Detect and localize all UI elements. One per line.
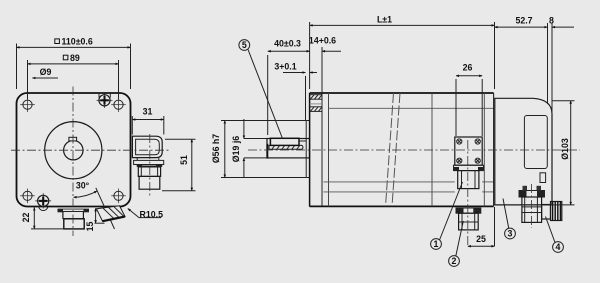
dim 25 bbox=[468, 207, 495, 246]
svg-text:3: 3 bbox=[508, 228, 513, 238]
motor body bbox=[310, 93, 494, 206]
dim Ø19 bbox=[231, 119, 267, 178]
centerline side horizontal bbox=[248, 149, 580, 151]
rear signal connector bbox=[519, 186, 562, 223]
screw bottom-left bbox=[35, 193, 51, 211]
svg-text:L±1: L±1 bbox=[377, 15, 392, 25]
svg-text:Ø9: Ø9 bbox=[40, 67, 52, 77]
svg-text:31: 31 bbox=[143, 107, 153, 117]
connector M12 bottom (front view) bbox=[58, 209, 90, 229]
shaft bbox=[266, 139, 309, 159]
dim Ø103 bbox=[520, 101, 575, 205]
centerline front horizontal bbox=[11, 149, 170, 151]
encoder housing bbox=[495, 98, 552, 205]
centerline rear connector bbox=[531, 184, 533, 228]
callout 4 bbox=[546, 217, 564, 253]
svg-text:3+0.1: 3+0.1 bbox=[274, 61, 296, 71]
dim Ø56 extension lines bbox=[221, 120, 306, 122]
dim 110 bbox=[17, 37, 131, 90]
dim 22 bbox=[21, 208, 64, 229]
shaft circle bbox=[64, 141, 83, 160]
keyway notch bbox=[69, 137, 77, 141]
centerline front vertical bbox=[72, 87, 74, 237]
dim 3 bbox=[274, 61, 317, 120]
flange outline bbox=[17, 93, 131, 207]
connector angled 30deg (front view) bbox=[96, 188, 125, 229]
dim 15 bbox=[85, 208, 105, 231]
svg-text:89: 89 bbox=[70, 53, 80, 63]
dim 26 bbox=[456, 63, 482, 137]
dim 51 bbox=[162, 139, 196, 191]
label R10.5 bbox=[128, 209, 163, 220]
dim 31 bbox=[132, 107, 164, 135]
svg-text:22: 22 bbox=[21, 213, 31, 223]
callout 2 bbox=[449, 221, 464, 266]
callout 3 bbox=[503, 199, 515, 239]
spigot bbox=[306, 121, 309, 178]
connector power box (front view, right) bbox=[132, 136, 163, 189]
svg-text:Ø103: Ø103 bbox=[560, 138, 570, 160]
svg-text:Ø56 h7: Ø56 h7 bbox=[211, 134, 221, 163]
svg-text:4: 4 bbox=[556, 242, 561, 252]
dim 8 bbox=[549, 16, 574, 115]
svg-text:110±0.6: 110±0.6 bbox=[62, 37, 93, 47]
screw top-right bbox=[97, 93, 113, 109]
svg-text:14+0.6: 14+0.6 bbox=[309, 36, 336, 46]
svg-text:5: 5 bbox=[242, 40, 247, 50]
svg-text:26: 26 bbox=[463, 63, 473, 73]
dim 14 bbox=[309, 36, 341, 94]
dim 52.7 bbox=[495, 16, 548, 105]
centerline power connector side bbox=[467, 140, 469, 246]
svg-text:R10.5: R10.5 bbox=[140, 209, 164, 219]
break lines bbox=[386, 93, 401, 206]
flange plate (side view) bbox=[310, 93, 322, 207]
key hatched bbox=[269, 138, 306, 149]
dim 89 bbox=[28, 53, 119, 99]
dim 9 hole bbox=[32, 67, 58, 78]
svg-text:25: 25 bbox=[476, 234, 486, 244]
svg-text:40±0.3: 40±0.3 bbox=[274, 39, 301, 49]
svg-text:2: 2 bbox=[452, 256, 457, 266]
hole bottom-left bbox=[20, 189, 35, 204]
dim Ø56 bbox=[211, 121, 225, 178]
svg-text:1: 1 bbox=[434, 239, 439, 249]
flange hole hatching bbox=[310, 95, 322, 112]
svg-text:15: 15 bbox=[85, 222, 95, 232]
svg-text:Ø19 j6: Ø19 j6 bbox=[231, 136, 241, 163]
dim L bbox=[310, 15, 495, 90]
power connector (side view) bbox=[454, 137, 484, 230]
centerline connector right bbox=[149, 134, 151, 197]
svg-text:30°: 30° bbox=[76, 181, 90, 191]
callout 1 bbox=[431, 182, 463, 249]
svg-text:8: 8 bbox=[549, 16, 554, 26]
dim 30deg arc bbox=[74, 181, 98, 198]
spigot circle bbox=[45, 122, 102, 179]
hole top-left bbox=[20, 97, 35, 112]
svg-text:52.7: 52.7 bbox=[515, 16, 532, 26]
hole top-right bbox=[111, 97, 126, 112]
svg-text:51: 51 bbox=[179, 155, 189, 165]
hole bottom-right bbox=[111, 189, 126, 204]
dim 40 bbox=[268, 39, 310, 136]
callout 5 bbox=[239, 40, 283, 139]
